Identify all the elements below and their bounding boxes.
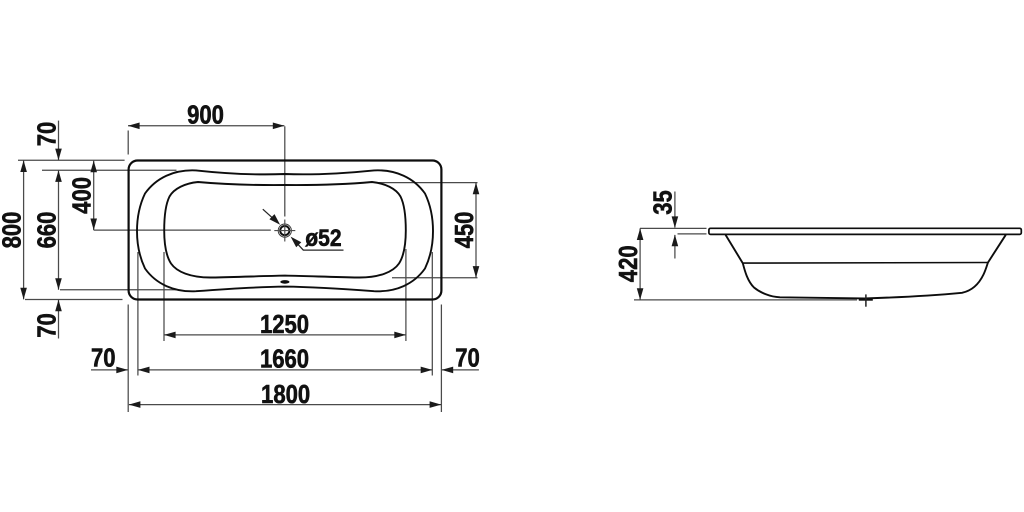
centerline vertical from 900 dim to drain bbox=[284, 126, 286, 216]
drain cross tick vertical bbox=[284, 220, 286, 242]
svg-text:450: 450 bbox=[450, 212, 479, 249]
arrowhead 35 lower bbox=[672, 235, 679, 247]
side view rim flange bbox=[709, 228, 1021, 234]
arrowhead drain leader lower bbox=[291, 237, 302, 248]
dimension line 70 top bbox=[58, 121, 60, 161]
extension line outer contour top bbox=[42, 169, 177, 171]
arrowhead 800 top bbox=[20, 160, 27, 172]
svg-text:1800: 1800 bbox=[261, 380, 310, 409]
svg-text:400: 400 bbox=[68, 177, 97, 214]
svg-text:800: 800 bbox=[0, 212, 27, 249]
arrowhead 900 left bbox=[128, 123, 140, 130]
tub outline plan view bbox=[129, 161, 442, 300]
arrowhead 800 bottom bbox=[20, 288, 27, 300]
dimension line 1800 bbox=[129, 404, 441, 406]
svg-text:70: 70 bbox=[33, 313, 62, 338]
dimension line 35 lower bbox=[674, 235, 676, 259]
arrowhead 420 bottom bbox=[637, 288, 644, 300]
drain symbol outer circle bbox=[278, 224, 291, 237]
extension line 450 top bbox=[376, 182, 478, 184]
side extension line rim top bbox=[640, 227, 707, 229]
arrowhead 70 top bbox=[55, 149, 62, 161]
extension line 900 left bbox=[127, 131, 129, 155]
arrowhead 400 bottom bbox=[90, 219, 97, 231]
svg-text:35: 35 bbox=[649, 190, 678, 215]
arrowhead 1800 left bbox=[129, 401, 141, 408]
arrowhead 70 bottom-left bbox=[116, 367, 128, 374]
svg-text:70: 70 bbox=[91, 344, 116, 373]
dimension line 800 bbox=[23, 160, 25, 299]
arrowhead 450 top bbox=[473, 183, 480, 195]
arrowhead 1250 left bbox=[164, 332, 176, 339]
side view body profile bbox=[726, 235, 1006, 299]
side view waste fitting bar bbox=[859, 298, 873, 301]
svg-text:70: 70 bbox=[33, 122, 62, 147]
extension line tub top bbox=[18, 159, 125, 161]
arrowhead 70 bottom stack bbox=[55, 300, 62, 312]
side view drain tick bbox=[865, 294, 867, 306]
extension line tub bottom bbox=[25, 299, 123, 301]
arrowhead 1800 right bbox=[430, 401, 442, 408]
svg-text:1660: 1660 bbox=[260, 345, 309, 374]
svg-text:ø52: ø52 bbox=[305, 225, 341, 252]
centerline horizontal to drain bbox=[94, 229, 271, 231]
dimension line 400 bbox=[93, 161, 95, 231]
dimension line 450 bbox=[475, 183, 477, 278]
svg-text:1250: 1250 bbox=[260, 310, 309, 339]
overflow mark bbox=[280, 280, 289, 284]
extension line 1250 left bbox=[163, 252, 165, 341]
inner basin contour plan view bbox=[164, 182, 406, 278]
dimension line 420 bbox=[639, 228, 641, 300]
extension line 1660 right bbox=[431, 252, 433, 376]
extension line 450 bottom bbox=[392, 277, 478, 279]
drain leader line lower with underline bbox=[294, 240, 343, 250]
arrowhead 1250 right bbox=[394, 332, 406, 339]
drain cross tick horizontal bbox=[274, 230, 295, 232]
extension line outer contour bottom bbox=[60, 289, 177, 291]
arrowhead 660 bottom bbox=[55, 278, 62, 290]
side extension line rim bottom bbox=[678, 233, 707, 235]
dimension line 1250 bbox=[164, 334, 406, 336]
dimension line 70 bottom stack bbox=[58, 300, 60, 339]
svg-text:660: 660 bbox=[33, 212, 62, 249]
arrowhead 450 bottom bbox=[473, 266, 480, 278]
arrowhead 900 right bbox=[273, 123, 285, 130]
dimension line 35 upper bbox=[674, 192, 676, 228]
dimension line 660 bbox=[58, 170, 60, 289]
arrowhead 420 top bbox=[637, 228, 644, 240]
arrowhead drain leader upper bbox=[269, 214, 280, 225]
drain symbol inner circle bbox=[280, 226, 289, 235]
svg-text:900: 900 bbox=[187, 101, 224, 130]
dimension line 70 bottom-right bbox=[442, 369, 479, 371]
extension line 1800 left bbox=[127, 305, 129, 413]
svg-text:70: 70 bbox=[455, 344, 480, 373]
outer basin contour plan view bbox=[137, 170, 433, 291]
arrowhead 70 bottom-right bbox=[442, 367, 454, 374]
dimension line 70 bottom-left bbox=[91, 369, 128, 371]
drain leader line upper bbox=[263, 209, 276, 221]
arrowhead 35 upper bbox=[672, 216, 679, 228]
side view waterline bbox=[743, 262, 987, 265]
arrowhead 660 top bbox=[55, 170, 62, 182]
dimension line 900 bbox=[128, 125, 284, 127]
arrowhead 400 top bbox=[90, 161, 97, 173]
extension line 1250 right bbox=[405, 249, 407, 341]
arrowhead 1660 left bbox=[138, 367, 150, 374]
dimension line 1660 bbox=[138, 369, 432, 371]
extension line 1800 right bbox=[440, 305, 442, 413]
svg-text:420: 420 bbox=[614, 245, 643, 282]
side extension line bottom 420 bbox=[634, 299, 857, 301]
arrowhead 1660 right bbox=[421, 367, 433, 374]
extension line 1660 left bbox=[137, 252, 139, 376]
